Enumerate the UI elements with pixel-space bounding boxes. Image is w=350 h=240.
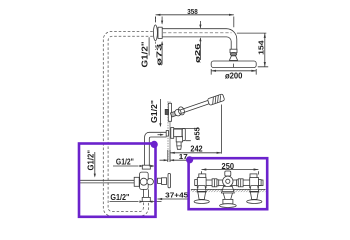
node: head center tick [233, 64, 235, 68]
mixer left tee cap [195, 180, 198, 186]
mixer wall hatch band [191, 189, 266, 192]
highlight box left [79, 144, 156, 217]
highlight box right corner dot [186, 156, 193, 163]
mixer left outlet bell [198, 192, 206, 199]
shower arm tube centerline dashed [163, 32, 232, 34]
shower arm flange collar [158, 27, 162, 38]
highlight box right [189, 158, 268, 209]
label G1/2 bracket leader arrow [159, 99, 161, 126]
hand shower valve spout [177, 142, 181, 146]
mixer right outlet skirt [250, 186, 259, 192]
mixer right tee cap [259, 180, 262, 186]
svg-text:G1/2": G1/2" [150, 100, 159, 123]
supply pipe from left [80, 180, 135, 183]
mixer left outlet base [194, 200, 209, 204]
mixer center outlet base [220, 204, 237, 208]
mixer right tee top nut [250, 174, 257, 178]
wall small arrow [158, 134, 163, 136]
dimension ø200 [211, 69, 256, 75]
dimension ø26 arrows [199, 21, 201, 60]
dimension 17 [160, 159, 189, 161]
hand shower wand [170, 94, 225, 119]
mixer center body circle [223, 176, 233, 186]
concealed valve circle B [147, 179, 153, 185]
hand shower valve outlet elbow [176, 137, 182, 142]
pipe elbow from wall to concealed valve [145, 132, 167, 165]
label G1/2 flange leader [148, 37, 150, 55]
shower head ball joint [230, 53, 236, 56]
mixer center inner circle [226, 179, 230, 183]
dimension 250 [202, 170, 259, 175]
hand shower bracket knob [165, 109, 168, 114]
label G1/2 vertical leader arrow [94, 152, 96, 176]
mixer right outlet base [247, 200, 262, 204]
shower head disc [211, 61, 256, 68]
node: flange centerline cross (dashed) [154, 17, 156, 51]
svg-text:G1/2": G1/2" [116, 157, 134, 166]
shower head connector nut [230, 49, 237, 53]
shower arm tube inner edge [162, 37, 231, 49]
svg-text:ø200: ø200 [225, 71, 243, 80]
svg-text:ø73: ø73 [154, 44, 163, 66]
dimension ø73 arrows [161, 17, 163, 65]
dimension 37+45 [157, 198, 188, 200]
svg-text:G1/2": G1/2" [86, 150, 95, 171]
concealed valve handle bar [168, 173, 171, 187]
mixer left tee body [197, 178, 206, 188]
dimension 358 line [156, 14, 234, 16]
shower head cone [229, 56, 237, 61]
svg-text:G1/2": G1/2" [141, 41, 150, 67]
hand shower valve handle disc [182, 129, 185, 141]
svg-text:ø26: ø26 [193, 44, 202, 64]
mixer center outlet neck [223, 193, 232, 199]
wire: in-wall pipe dashed outer run (flange to valve loop) [103, 32, 153, 216]
mixer center top nub [225, 171, 231, 176]
hand shower holder ring [177, 106, 185, 116]
shower arm flange [153, 25, 157, 41]
concealed valve handle stem [158, 178, 162, 183]
mixer bridge bar [196, 180, 264, 186]
svg-text:G1/2": G1/2" [110, 193, 129, 202]
mixer left coupling [212, 179, 217, 187]
svg-text:ø55: ø55 [193, 127, 202, 140]
dimension ø55 lines [174, 129, 198, 141]
concealed valve handle cylinder [162, 178, 167, 185]
mixer center skirt lines [197, 189, 259, 191]
svg-text:250: 250 [222, 162, 235, 171]
supply pipe nut [134, 177, 139, 186]
hand shower valve wall plate [171, 128, 174, 139]
highlight box left corner dot [151, 141, 158, 148]
hand shower bracket plate [168, 103, 171, 121]
mixer right coupling [237, 180, 239, 186]
concealed valve body [140, 172, 149, 189]
svg-text:154: 154 [256, 40, 265, 55]
concealed valve collar [142, 165, 150, 169]
wire: in-wall pipe dashed inner run [108, 36, 153, 211]
wall line at hand shower [167, 101, 169, 161]
concealed valve bottom pipe [143, 189, 148, 197]
mixer left outlet skirt [197, 186, 206, 192]
shower arm tube outer edge [162, 29, 237, 50]
concealed valve bottom cap [142, 197, 150, 201]
mixer right outlet bell [250, 192, 258, 199]
dimension 154 [237, 33, 268, 67]
hand shower valve aerator [177, 146, 181, 149]
hand shower valve in-wall box [166, 131, 168, 137]
mixer left tee top nut [199, 174, 206, 178]
mixer center outlet bell [223, 199, 233, 203]
concealed valve circle A [140, 178, 147, 185]
svg-text:358: 358 [187, 7, 198, 16]
svg-text:242: 242 [190, 145, 203, 154]
svg-text:37+45: 37+45 [165, 191, 188, 200]
mixer right tee body [250, 178, 259, 188]
dimension 242 [168, 105, 222, 163]
mixer center outlet skirt [221, 186, 234, 193]
hand shower valve body [174, 129, 182, 137]
